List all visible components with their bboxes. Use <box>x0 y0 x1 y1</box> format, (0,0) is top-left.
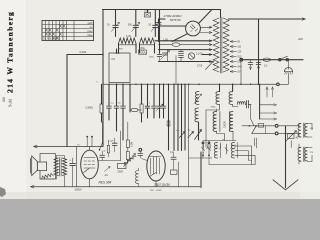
transformer T1 core <box>220 17 222 73</box>
svg-text:214 W Tannenberg: 214 W Tannenberg <box>6 11 15 93</box>
contact K2 <box>208 142 211 156</box>
ground arrowhead <box>273 180 298 190</box>
wire hv vert 258 <box>258 19 260 84</box>
wire vert 181.5 <box>181 84 183 150</box>
oval component on tap <box>159 43 213 47</box>
trimmer capacitor C16 <box>156 84 163 118</box>
capacitor C15 <box>152 84 157 118</box>
filter cap C18 <box>245 101 251 109</box>
tap line C <box>260 118 277 120</box>
fuse oval row <box>130 108 142 111</box>
wire tube V3 bottom <box>155 181 157 187</box>
ground chassis <box>285 61 293 74</box>
terminal circle hv <box>240 58 243 61</box>
label spk1 <box>107 25 110 27</box>
label bus l <box>97 81 99 83</box>
volume pot R7 <box>123 154 136 167</box>
label tube V3 sub <box>150 189 163 192</box>
svg-text:grau: grau <box>87 29 93 33</box>
heater arrow 1 <box>266 87 268 97</box>
coil L3b <box>195 108 199 122</box>
label pin row <box>203 152 205 154</box>
ot core B <box>303 147 305 162</box>
capacitor C5 grid <box>156 19 165 24</box>
label r row2 <box>118 102 121 104</box>
svg-text:30000: 30000 <box>75 189 83 192</box>
title text 214 W Tannenberg <box>6 11 15 93</box>
label tube U1 line1 <box>164 14 183 18</box>
capacitor C14 <box>145 84 150 118</box>
wire coil drops <box>119 10 160 54</box>
label choke <box>223 139 225 141</box>
margin tick <box>3 97 6 102</box>
tube V3 envelope <box>147 151 165 181</box>
wire tube to rail diagonal <box>199 10 212 24</box>
wire mains top <box>229 18 306 20</box>
tube U1 electrodes <box>190 25 197 32</box>
ot secondary <box>62 158 66 176</box>
ot winding B1 <box>298 148 301 162</box>
capacitor C10 <box>256 60 261 70</box>
terminal circle bus right <box>277 83 280 86</box>
capacitor C19 electrolytic <box>69 158 75 187</box>
label 0.08 <box>144 10 149 13</box>
tap line B <box>260 112 277 114</box>
wire vert 185 <box>184 84 186 150</box>
wire tap line 4 <box>159 60 213 62</box>
label AS <box>104 174 108 177</box>
label 0.1 2 <box>196 54 203 56</box>
trimmer capacitor C8 <box>206 61 214 70</box>
fuse oval 0.2 <box>263 58 271 61</box>
svg-text:0,1•2Ω: 0,1•2Ω <box>196 54 203 56</box>
wire h 160 <box>99 160 121 162</box>
speaker driver <box>37 162 46 171</box>
coupling cap C22 <box>138 148 147 160</box>
ot core A <box>303 123 305 138</box>
osc coil L3 <box>194 92 202 105</box>
wire phono line <box>34 145 104 148</box>
heater arrow 2 <box>271 87 273 97</box>
capacitor C24 <box>149 50 162 62</box>
margin smudge bottom left <box>0 187 6 197</box>
wire av line2 <box>278 125 299 127</box>
label 30000 <box>75 189 83 192</box>
wire vert 130 <box>129 84 131 112</box>
field coil zigzag <box>41 173 53 179</box>
wire vert 76.7 <box>76 147 78 187</box>
ot core lines <box>60 158 62 177</box>
wire ift2 b bottom <box>232 131 234 141</box>
label 5000 <box>118 171 124 174</box>
wire antenna horizontal 0.003 <box>67 54 103 56</box>
wire vert 178 <box>177 84 179 150</box>
tube V2 electrodes <box>84 158 96 173</box>
coil L5 <box>229 84 238 106</box>
trimmer capacitor C3 <box>151 10 159 37</box>
svg-text:4,05: 4,05 <box>126 35 131 38</box>
wire tap line 3 <box>202 53 212 55</box>
wire L3 to switch <box>198 122 200 140</box>
coil L1 base <box>119 44 137 46</box>
tube U1 envelope <box>186 21 201 36</box>
label 0.1 v3 <box>170 152 174 154</box>
wire vert 120.6 <box>120 131 122 161</box>
grid arrow V2 <box>105 167 111 172</box>
wire vert 167.5 <box>167 50 169 62</box>
choke CH1 <box>214 143 220 159</box>
svg-text:gelb: gelb <box>88 21 93 25</box>
resistor R8 pill <box>118 164 127 169</box>
pill R9 <box>171 170 178 175</box>
resistor R5 box <box>126 122 129 151</box>
wire vert 241 <box>240 61 242 84</box>
wire v3 right <box>174 162 179 187</box>
svg-text:5000: 5000 <box>118 171 124 174</box>
svg-text:Y²07 · SV3V: Y²07 · SV3V <box>150 189 163 192</box>
label tube V3 <box>154 183 171 187</box>
wire hv rail <box>241 59 304 61</box>
label spk2 <box>128 25 133 27</box>
label top coil <box>119 49 123 51</box>
field coil box <box>40 154 55 179</box>
wire lc out <box>248 105 253 126</box>
ot winding A1 <box>298 124 301 138</box>
wire ift2 bottom link <box>217 131 225 141</box>
label osc <box>112 59 116 61</box>
svg-text:Suhl: Suhl <box>8 98 13 107</box>
label R3 <box>146 107 150 110</box>
ift2 winding A <box>213 112 220 132</box>
label 375 b <box>310 152 314 154</box>
label 0.003 <box>80 50 87 54</box>
wire tube V2 bottom <box>89 179 91 187</box>
component small on 168.5 <box>167 121 170 126</box>
svg-text:5000: 5000 <box>211 107 217 109</box>
coil L2 <box>140 38 155 44</box>
capacitor C11 <box>107 84 112 120</box>
wire tube V2 top <box>89 147 91 151</box>
svg-text:0,08: 0,08 <box>144 10 149 13</box>
label tube U1 line2 <box>170 18 181 22</box>
wire tube grid left <box>159 26 187 42</box>
wire tap line 1 <box>155 40 212 42</box>
resistor R3 box <box>140 84 143 122</box>
label 4.05 <box>126 35 131 38</box>
svg-text:a·w: a·w <box>176 130 180 132</box>
wire main bus <box>103 83 277 85</box>
wire vert 176 <box>175 56 177 85</box>
resistor R6 box <box>126 152 129 164</box>
capacitor C12 <box>114 84 119 131</box>
label 20000 <box>224 121 227 128</box>
speaker cone <box>31 156 38 176</box>
capacitor C7 stack <box>179 50 184 62</box>
wire choke link <box>189 138 257 165</box>
capacitor C20 <box>100 151 105 161</box>
resistor R2 box <box>100 84 103 122</box>
tube V2 envelope <box>81 150 99 179</box>
switch S1 <box>279 56 289 61</box>
svg-text:-: - <box>275 91 276 94</box>
band switch table <box>42 21 94 41</box>
svg-text:RES 964: RES 964 <box>99 180 112 184</box>
ot winding B2 <box>305 148 308 162</box>
label rheostat <box>291 138 299 148</box>
title text Suhl <box>8 98 13 107</box>
ot winding A2 <box>305 124 308 138</box>
wire osc box stub <box>102 49 119 55</box>
label AW <box>297 37 304 41</box>
coil L1 <box>119 38 137 44</box>
coil L2 base <box>140 44 155 46</box>
capacitor C9 <box>248 60 253 70</box>
wire lower line <box>252 132 299 135</box>
contact K3 <box>225 144 228 154</box>
svg-text:blau: blau <box>88 33 93 37</box>
capacitor C21 <box>108 138 117 152</box>
svg-text:0,003: 0,003 <box>80 50 87 54</box>
label r row1 <box>111 102 115 104</box>
wire top rail drop <box>220 10 222 18</box>
pickup terminal 2 <box>91 136 93 147</box>
label 0.2 <box>264 64 268 67</box>
coil L4 <box>206 84 220 147</box>
choke CH2 <box>231 143 237 159</box>
svg-text:20000: 20000 <box>224 121 227 128</box>
capacitor C4 top <box>145 10 151 18</box>
wire left vertical <box>102 10 104 147</box>
wire top rail <box>103 9 221 11</box>
svg-text:-AS: -AS <box>104 174 108 177</box>
trimmer capacitor C6 <box>161 51 170 60</box>
label tube V2 <box>99 180 112 184</box>
svg-text:0,5MΩ: 0,5MΩ <box>86 107 94 110</box>
label r row3 <box>149 102 151 104</box>
label 375 a <box>310 128 314 130</box>
rheostat R4 <box>286 131 297 142</box>
svg-text:1725: 1725 <box>197 66 203 68</box>
wire bottom bus <box>31 185 202 188</box>
wire vert 168.5 <box>168 84 170 150</box>
tube V3 electrodes <box>149 157 161 177</box>
wire speaker bottoms <box>57 176 65 187</box>
label R5 <box>132 142 134 147</box>
wire speaker tops <box>57 156 65 159</box>
pin symbols <box>202 145 235 149</box>
wire ift2 top <box>216 109 218 112</box>
label heater <box>275 91 276 94</box>
capacitor C17 <box>162 84 166 118</box>
ot primary <box>54 158 58 176</box>
wire tube screen line <box>200 31 212 33</box>
wire tap line 2 <box>159 49 213 51</box>
label tap mid <box>246 101 250 103</box>
wire ground to bus <box>279 74 288 84</box>
coil L7 <box>136 168 139 187</box>
svg-text:D L M K U W S: D L M K U W S <box>43 38 60 41</box>
cap C23 right <box>171 152 176 162</box>
svg-text:8076 50: 8076 50 <box>170 18 181 22</box>
label if2 <box>211 107 217 109</box>
svg-text:0,1μF: 0,1μF <box>108 141 114 143</box>
svg-text:1,0Ω: 1,0Ω <box>163 38 168 41</box>
wire bus drop 201 <box>200 152 202 187</box>
transformer T1 secondary <box>223 18 229 72</box>
grid pill V2 <box>103 140 109 157</box>
bus junction dots <box>108 84 259 86</box>
wire cap drop <box>70 165 72 167</box>
wire ground drop <box>285 126 287 188</box>
label 470 <box>139 47 145 50</box>
switch arrow a <box>176 129 191 137</box>
svg-text:0,3M: 0,3M <box>132 142 134 147</box>
tap line A <box>260 84 277 119</box>
transformer T1 taps <box>230 40 242 73</box>
svg-text:rot: rot <box>89 25 92 29</box>
wire vert 174 <box>173 84 175 150</box>
label spk3 <box>149 25 152 27</box>
wire av line <box>242 124 278 133</box>
svg-text:Höl: Höl <box>112 59 116 61</box>
wire tube plate line <box>200 26 212 28</box>
label 1725 <box>197 66 203 68</box>
svg-text:2500: 2500 <box>149 57 155 59</box>
ift2 winding B <box>230 112 233 132</box>
pickup terminal 1 <box>77 136 88 147</box>
wire vert 188.7 <box>188 84 190 187</box>
filter coil L6 <box>237 102 245 105</box>
selector pill <box>258 124 264 128</box>
switch arrow b <box>188 132 194 138</box>
capacitor C13 <box>121 84 126 140</box>
trimmer capacitor C2 <box>132 10 140 37</box>
wire tube cathode diagonal <box>172 34 187 42</box>
selector lever <box>252 125 257 133</box>
svg-text:470Δ: 470Δ <box>139 47 145 50</box>
switch arrow c <box>195 130 202 140</box>
wire antenna vertical <box>66 55 68 147</box>
label R2 <box>86 107 94 110</box>
oscillator box <box>109 53 130 83</box>
transformer T1 primary <box>213 18 219 72</box>
wire ot conn <box>299 124 312 165</box>
svg-text:7607 SV3V: 7607 SV3V <box>154 183 171 187</box>
label 4.0 <box>163 38 168 41</box>
dial lamp <box>188 53 194 59</box>
resistor R1 hatched box <box>139 50 147 54</box>
wire y140 link <box>203 140 236 142</box>
contact K1 <box>202 142 205 156</box>
trimmer capacitor C1 <box>111 10 119 37</box>
switch S2 <box>99 122 103 151</box>
